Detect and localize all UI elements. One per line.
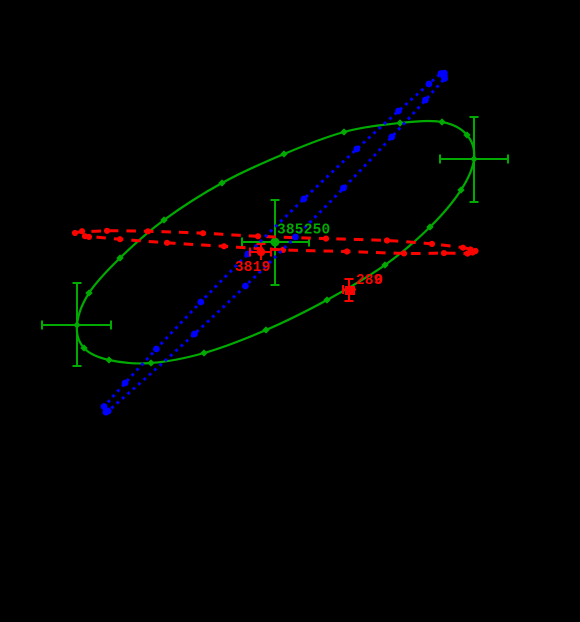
svg-text:0: 0 — [375, 273, 384, 289]
svg-text:3819: 3819 — [235, 260, 271, 276]
svg-text:385250: 385250 — [277, 223, 330, 239]
